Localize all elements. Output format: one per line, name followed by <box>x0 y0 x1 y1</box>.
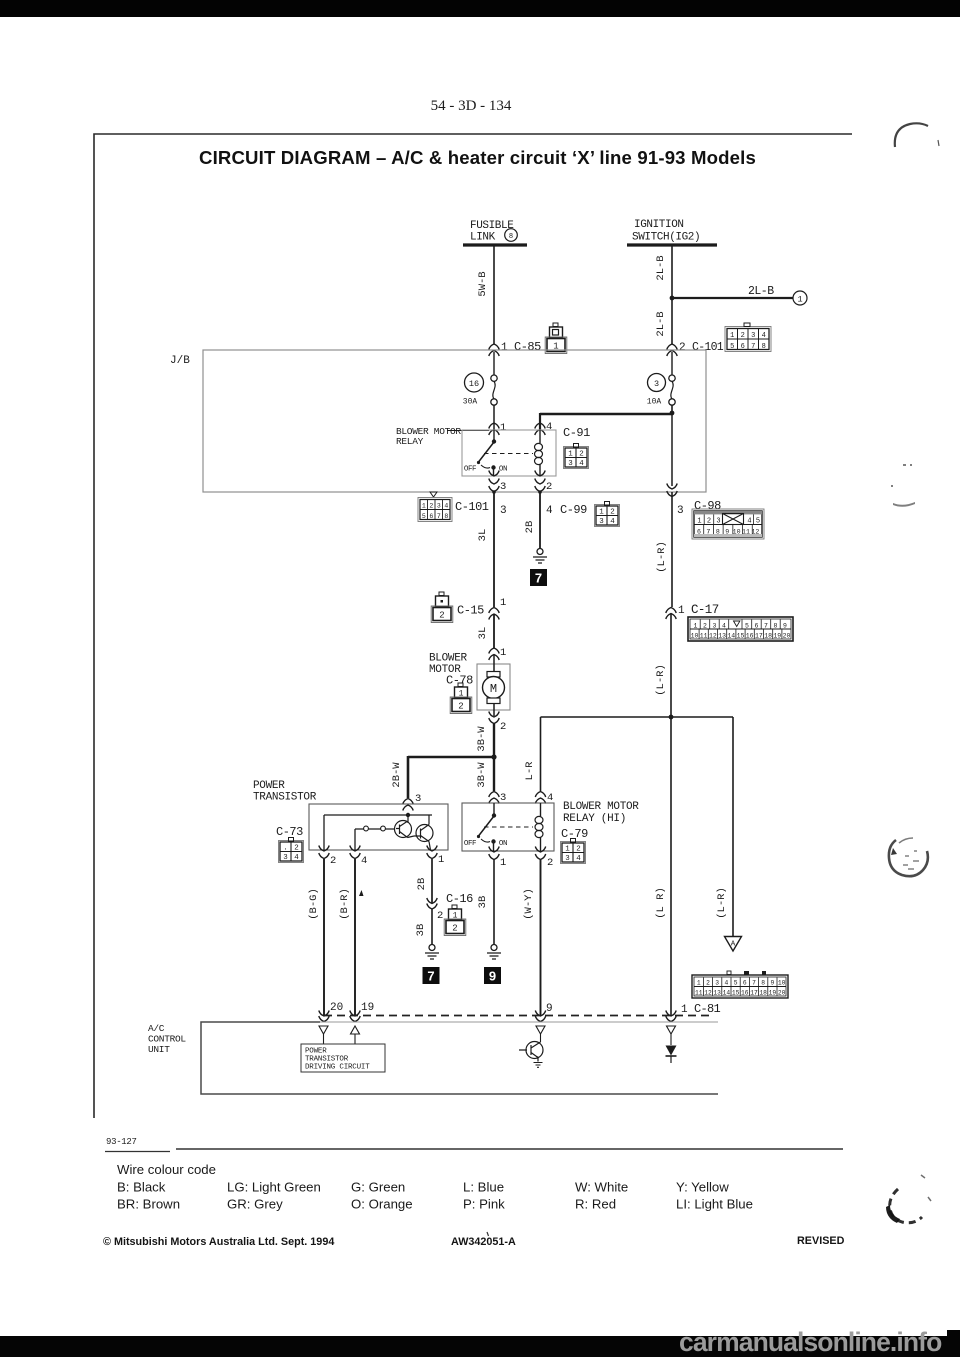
node: junction 2L-B <box>670 296 675 301</box>
svg-text:REVISED: REVISED <box>797 1235 845 1247</box>
scan blob stamp right <box>889 838 928 876</box>
relay HI pin 3 marker <box>489 792 507 805</box>
svg-text:12: 12 <box>751 529 759 536</box>
fuse 3 (10A) <box>647 352 675 407</box>
svg-text:19: 19 <box>769 990 777 997</box>
svg-text:11: 11 <box>695 990 703 997</box>
svg-text:8: 8 <box>716 529 720 536</box>
svg-text:1: 1 <box>568 451 573 459</box>
svg-text:IGNITION: IGNITION <box>634 219 684 231</box>
A/C control unit harness dashed line <box>324 1015 714 1017</box>
ground reference 9 (black tag) <box>484 967 501 984</box>
svg-text:2B: 2B <box>416 878 428 891</box>
svg-text:1: 1 <box>500 647 506 659</box>
svg-text:7: 7 <box>706 529 710 536</box>
svg-text:A: A <box>731 941 736 949</box>
relay HI pin 4 marker <box>535 792 553 805</box>
svg-text:(L R): (L R) <box>655 887 667 919</box>
ground (power transistor) <box>425 945 439 960</box>
power transistor internals <box>324 813 432 850</box>
svg-text:10: 10 <box>733 529 741 536</box>
wire (B-R) pin4 to A/C pin 19 <box>339 859 364 1016</box>
svg-text:2: 2 <box>576 846 581 854</box>
svg-text:3: 3 <box>713 622 717 629</box>
svg-text:9: 9 <box>725 529 729 536</box>
wire 3L label + pin number below C-101 <box>477 492 507 607</box>
page link circle 1 <box>793 291 807 305</box>
svg-text:B: Black: B: Black <box>117 1180 166 1195</box>
ignition switch terminal <box>627 219 717 245</box>
scan smudge dots mid right <box>891 464 915 507</box>
off-page connector triangle A <box>725 937 742 952</box>
svg-text:carmanualsonline.info: carmanualsonline.info <box>679 1327 942 1357</box>
svg-text:AW342051-A: AW342051-A <box>451 1236 516 1248</box>
svg-text:6: 6 <box>429 513 433 520</box>
connector C-17 icon (20 way) <box>688 617 793 641</box>
wire 2B to C-99 / ground <box>524 492 587 548</box>
transistor Q2 <box>408 815 434 850</box>
svg-text:2: 2 <box>458 702 463 712</box>
svg-text:2: 2 <box>546 481 552 493</box>
fuse 16 (30A) <box>463 352 497 407</box>
svg-text:A/C: A/C <box>148 1023 165 1034</box>
connector C-15 marker <box>457 597 506 620</box>
node: L-R junction <box>669 715 674 720</box>
diode D1 inside A/C unit <box>666 1046 677 1064</box>
svg-text:5: 5 <box>745 622 749 629</box>
svg-text:2L-B: 2L-B <box>655 311 667 336</box>
svg-text:3L: 3L <box>477 529 489 542</box>
svg-text:19: 19 <box>773 633 781 640</box>
relay HI label <box>563 801 639 825</box>
relay HI pin 1 marker <box>489 847 507 870</box>
svg-text:18: 18 <box>759 990 767 997</box>
svg-text:7: 7 <box>437 513 441 520</box>
node: junction at fuse 3 output <box>670 411 675 416</box>
C-81 entry marker <box>666 1002 721 1022</box>
svg-text:16: 16 <box>469 379 479 389</box>
svg-text:2: 2 <box>547 857 553 869</box>
connector C-81 icon (20 way) <box>692 971 788 998</box>
fusible link terminal <box>463 220 527 245</box>
svg-text:3L: 3L <box>477 627 489 640</box>
relay HI pin 2 marker <box>535 847 553 870</box>
svg-text:RELAY: RELAY <box>396 436 424 447</box>
svg-text:2: 2 <box>707 518 711 526</box>
svg-text:7: 7 <box>751 343 755 351</box>
svg-text:2: 2 <box>579 451 584 459</box>
svg-text:8: 8 <box>762 343 766 351</box>
svg-text:6: 6 <box>755 622 759 629</box>
svg-text:1: 1 <box>500 597 506 609</box>
svg-text:2: 2 <box>706 980 710 987</box>
svg-text:J/B: J/B <box>170 355 190 367</box>
svg-text:C-81: C-81 <box>694 1002 721 1016</box>
relay HI switch <box>464 803 533 851</box>
svg-text:6: 6 <box>697 529 701 536</box>
svg-text:54 - 3D - 134: 54 - 3D - 134 <box>431 98 512 114</box>
svg-text:15: 15 <box>732 990 740 997</box>
svg-text:4: 4 <box>361 855 367 867</box>
svg-text:8: 8 <box>509 233 513 241</box>
A/C control unit pin 19 entry <box>350 1002 374 1022</box>
svg-text:OFF: OFF <box>464 466 476 474</box>
connector C-16 marker <box>427 892 473 922</box>
relay pin 2 exit marker <box>535 471 553 494</box>
svg-text:4: 4 <box>444 503 448 510</box>
svg-text:C-15: C-15 <box>457 604 484 618</box>
wire 3B C-16 to ground <box>415 909 432 944</box>
power transistor driving circuit block <box>301 1044 385 1072</box>
svg-text:1: 1 <box>459 690 464 699</box>
svg-text:LINK: LINK <box>470 232 496 244</box>
svg-text:4: 4 <box>762 332 766 340</box>
connector C-78 icon <box>450 683 472 714</box>
svg-text:3: 3 <box>599 518 604 526</box>
svg-text:3B-W: 3B-W <box>476 726 488 752</box>
footer rule <box>105 1149 843 1152</box>
svg-text:Y: Yellow: Y: Yellow <box>676 1180 729 1195</box>
svg-text:5W-B: 5W-B <box>477 271 489 296</box>
svg-text:.: . <box>283 845 288 853</box>
svg-text:C-99: C-99 <box>560 503 587 517</box>
svg-text:3: 3 <box>415 793 421 805</box>
svg-text:1: 1 <box>678 605 685 617</box>
wire 2B pin1 to C-16 <box>416 859 432 903</box>
svg-text:2: 2 <box>437 910 443 922</box>
svg-text:9: 9 <box>771 980 775 987</box>
svg-text:4: 4 <box>610 518 615 526</box>
scan smudge arc top-right <box>895 123 928 147</box>
svg-text:3B: 3B <box>477 896 489 909</box>
connector C-17 marker <box>666 603 719 619</box>
blower motor relay pin 4 marker <box>535 421 553 435</box>
ground reference 7 (black tag) <box>530 569 547 586</box>
svg-text:(L-R): (L-R) <box>716 887 728 919</box>
blower motor exit pin 2 <box>489 712 507 734</box>
A/C control unit pin 20 entry <box>319 1002 343 1022</box>
wire 3B-W motor to junction <box>476 724 494 758</box>
svg-text:2: 2 <box>500 721 506 733</box>
svg-text:6: 6 <box>743 980 747 987</box>
svg-text:G: Green: G: Green <box>351 1180 405 1195</box>
wire (L-R) from C-98 to C-17 <box>656 492 684 607</box>
svg-text:2L-B: 2L-B <box>748 285 774 298</box>
svg-text:3B: 3B <box>415 924 427 937</box>
svg-text:(L-R): (L-R) <box>656 541 668 573</box>
svg-text:LG: Light Green: LG: Light Green <box>227 1180 321 1195</box>
svg-text:1: 1 <box>681 1004 688 1016</box>
svg-text:1: 1 <box>453 912 458 921</box>
A/C control unit box <box>201 1022 718 1094</box>
svg-text:C-101: C-101 <box>692 341 724 354</box>
wire L-R junction horizontal <box>541 716 734 718</box>
svg-text:2: 2 <box>610 509 615 517</box>
svg-text:3: 3 <box>500 481 506 493</box>
svg-text:14: 14 <box>723 990 731 997</box>
svg-text:4: 4 <box>722 622 726 629</box>
relay C-91 coil <box>535 430 543 476</box>
svg-text:TRANSISTOR: TRANSISTOR <box>253 792 317 804</box>
blower motor relay (HI) box <box>462 803 554 851</box>
svg-text:18: 18 <box>764 633 772 640</box>
svg-text:W: White: W: White <box>575 1180 628 1195</box>
transistor inside A/C unit <box>519 1042 543 1062</box>
svg-text:8: 8 <box>444 513 448 520</box>
svg-text:2B-W: 2B-W <box>391 762 403 788</box>
svg-text:1: 1 <box>501 342 508 354</box>
svg-text:1: 1 <box>422 503 426 510</box>
svg-text:4: 4 <box>725 980 729 987</box>
svg-text:3: 3 <box>500 792 506 804</box>
svg-text:3: 3 <box>500 505 507 517</box>
connector C-73 icon <box>279 838 304 863</box>
svg-text:3: 3 <box>751 332 755 340</box>
wire L-R to relay HI pin 4 <box>524 717 541 791</box>
relay C-91 switch <box>464 430 533 476</box>
connector C-85 crossing into J/B, pin 1 <box>489 340 541 356</box>
svg-text:© Mitsubishi Motors Australia: © Mitsubishi Motors Australia Ltd. Sept.… <box>103 1236 334 1248</box>
connector C-85 icon <box>545 323 567 354</box>
connector C-101 icon (lower) <box>418 492 452 522</box>
svg-text:3B-W: 3B-W <box>476 762 488 788</box>
wire (L-R) C-17 to junction <box>655 614 671 717</box>
svg-text:3: 3 <box>715 980 719 987</box>
svg-text:4: 4 <box>294 854 299 862</box>
svg-text:2: 2 <box>679 342 686 354</box>
svg-text:9: 9 <box>546 1003 553 1015</box>
svg-text:POWER: POWER <box>305 1048 327 1056</box>
blower motor <box>429 653 510 717</box>
svg-text:3: 3 <box>283 854 288 862</box>
svg-text:2: 2 <box>294 845 299 853</box>
svg-text:ON: ON <box>499 840 507 848</box>
power transistor box <box>309 804 448 850</box>
svg-text:9: 9 <box>783 622 787 629</box>
connector C-101 icon (8 way) <box>725 323 771 352</box>
svg-text:1: 1 <box>500 422 506 434</box>
svg-text:9: 9 <box>489 969 496 984</box>
svg-text:12: 12 <box>709 633 717 640</box>
svg-text:1: 1 <box>599 509 604 517</box>
diagram outer border (top + left edges) <box>94 134 852 1118</box>
svg-text:BR: Brown: BR: Brown <box>117 1197 180 1212</box>
svg-text:LI: Light Blue: LI: Light Blue <box>676 1197 753 1212</box>
power transistor label <box>253 780 317 804</box>
svg-text:OFF: OFF <box>464 840 476 848</box>
blower motor relay pin 1 marker <box>489 422 507 435</box>
svg-text:C-73: C-73 <box>276 825 303 839</box>
svg-text:L: Blue: L: Blue <box>463 1180 504 1195</box>
ground (relay HI) <box>487 945 501 960</box>
svg-text:14: 14 <box>727 633 735 640</box>
svg-text:1: 1 <box>500 857 506 869</box>
connector C-98 icon (12 way) <box>692 509 764 539</box>
svg-text:C-16: C-16 <box>446 892 473 906</box>
wire fuse3 down to junction <box>671 405 673 413</box>
small ground inside A/C unit <box>534 1063 543 1068</box>
svg-text:(L-R): (L-R) <box>655 664 667 696</box>
svg-text:3: 3 <box>654 379 659 389</box>
svg-text:1: 1 <box>697 518 701 526</box>
svg-text:2: 2 <box>429 503 433 510</box>
thick wire 2B-W branch to power transistor <box>391 756 494 798</box>
svg-text:10A: 10A <box>647 398 662 407</box>
svg-text:3: 3 <box>716 518 720 526</box>
svg-text:3: 3 <box>565 855 570 863</box>
svg-text:16: 16 <box>741 990 749 997</box>
svg-text:C-17: C-17 <box>691 603 719 617</box>
svg-text:5: 5 <box>734 980 738 987</box>
wire (W-Y) relay HI pin2 to A/C pin 9 <box>523 859 541 1016</box>
node: pin3 at J/B bottom <box>492 490 496 494</box>
svg-text:10: 10 <box>691 633 699 640</box>
A/C control unit pin 9 entry <box>535 1003 552 1022</box>
wire 3L to blower motor <box>477 614 494 648</box>
wire 5W-B from fusible link to J/B <box>477 246 494 344</box>
svg-text:20: 20 <box>330 1002 343 1014</box>
svg-text:TRANSISTOR: TRANSISTOR <box>305 1056 349 1064</box>
svg-text:4: 4 <box>546 421 552 433</box>
svg-text:7: 7 <box>535 571 542 586</box>
svg-text:UNIT: UNIT <box>148 1044 170 1055</box>
svg-text:12: 12 <box>704 990 712 997</box>
svg-text:2: 2 <box>439 611 444 621</box>
svg-text:4: 4 <box>547 792 553 804</box>
svg-text:2: 2 <box>703 622 707 629</box>
node: pin2 at J/B bottom <box>538 490 542 494</box>
svg-text:13: 13 <box>718 633 726 640</box>
top scanner black bar <box>0 0 960 17</box>
svg-text:1: 1 <box>697 980 701 987</box>
svg-text:P: Pink: P: Pink <box>463 1197 505 1212</box>
svg-text:7: 7 <box>427 969 434 984</box>
svg-text:BLOWER: BLOWER <box>429 653 468 665</box>
svg-text:2B: 2B <box>524 521 536 534</box>
svg-text:11: 11 <box>700 633 708 640</box>
connector C-79 icon <box>561 839 586 864</box>
wire (L-R) to off-page triangle A <box>716 717 733 936</box>
svg-text:5: 5 <box>422 513 426 520</box>
svg-text:DRIVING CIRCUIT: DRIVING CIRCUIT <box>305 1064 370 1072</box>
svg-text:8: 8 <box>774 622 778 629</box>
svg-text:4: 4 <box>579 460 584 468</box>
svg-text:10: 10 <box>778 980 786 987</box>
svg-text:7: 7 <box>764 622 768 629</box>
svg-text:CONTROL: CONTROL <box>148 1034 186 1045</box>
J/B junction block box <box>170 350 706 492</box>
wire (B-G) pin2 to A/C pin 20 <box>308 859 324 1016</box>
ground after C-99 <box>533 549 547 564</box>
relay C-91 box <box>462 430 556 476</box>
svg-text:93-127: 93-127 <box>106 1137 137 1147</box>
wire (L R) junction to A/C control unit <box>655 717 671 1016</box>
wire 2L-B branch to page link 1 <box>672 285 793 298</box>
svg-text:30A: 30A <box>463 398 478 407</box>
relay HI coil <box>535 803 543 851</box>
svg-text:POWER: POWER <box>253 780 285 792</box>
svg-text:2L-B: 2L-B <box>655 255 667 280</box>
power transistor pin 2 marker <box>319 846 337 868</box>
svg-text:SWITCH(IG2): SWITCH(IG2) <box>632 232 700 244</box>
svg-text:15: 15 <box>737 633 745 640</box>
wire 3B-W junction to relay HI pin 3 <box>476 757 494 791</box>
blower motor relay label <box>396 426 489 447</box>
svg-text:6: 6 <box>741 343 745 351</box>
svg-text:2: 2 <box>741 332 745 340</box>
connector C-16 icon <box>444 905 466 936</box>
svg-text:5: 5 <box>756 518 760 526</box>
svg-text:RELAY (HI): RELAY (HI) <box>563 813 626 825</box>
power transistor pin 4 marker <box>350 846 368 868</box>
svg-text:2: 2 <box>330 855 336 867</box>
svg-text:3: 3 <box>437 503 441 510</box>
svg-text:L-R: L-R <box>524 761 536 781</box>
svg-text:C-101: C-101 <box>455 500 489 514</box>
svg-text:Wire colour code: Wire colour code <box>117 1162 216 1177</box>
C-98 exit marker at J/B edge <box>667 484 677 497</box>
svg-text:20: 20 <box>778 990 786 997</box>
svg-text:GR: Grey: GR: Grey <box>227 1197 283 1212</box>
svg-text:C-85: C-85 <box>514 340 541 354</box>
bottom scanner black bar <box>0 1330 960 1357</box>
power transistor pin 3 marker <box>403 793 422 811</box>
svg-text:CIRCUIT DIAGRAM – A/C & heater: CIRCUIT DIAGRAM – A/C & heater circuit ‘… <box>199 147 756 168</box>
A/C C-81 internal triangle <box>667 1026 676 1045</box>
wire 2L-B ignition to junction <box>655 246 672 298</box>
transistor Q1 <box>395 815 412 838</box>
svg-text:C-78: C-78 <box>446 674 473 688</box>
svg-text:2: 2 <box>452 924 457 934</box>
power transistor pin 1 marker <box>427 846 445 867</box>
svg-text:R: Red: R: Red <box>575 1197 616 1212</box>
connector C-101 crossing into J/B, pin 2 <box>667 341 724 356</box>
scan swirl bottom right <box>886 1175 931 1223</box>
svg-text:7: 7 <box>752 980 756 987</box>
svg-text:16: 16 <box>746 633 754 640</box>
svg-text:17: 17 <box>750 990 758 997</box>
svg-text:1: 1 <box>565 846 570 854</box>
svg-text:8: 8 <box>761 980 765 987</box>
svg-text:4: 4 <box>546 505 553 517</box>
connector C-91 icon <box>564 444 589 469</box>
wire 3B relay HI pin1 to ground <box>477 859 494 944</box>
thick wire junction to relay coil pin 4 <box>540 413 672 430</box>
A/C pin 9 internal triangle <box>536 1026 545 1042</box>
svg-text:O: Orange: O: Orange <box>351 1197 413 1212</box>
svg-text:3: 3 <box>677 505 684 517</box>
A/C pin 19 internal triangle <box>351 1026 360 1044</box>
svg-text:ON: ON <box>499 466 507 474</box>
wire fuse16 to relay pin 1 <box>493 405 495 430</box>
svg-text:4: 4 <box>576 855 581 863</box>
svg-text:3: 3 <box>568 460 573 468</box>
svg-text:11: 11 <box>742 529 750 536</box>
svg-text:M: M <box>490 682 497 696</box>
connector C-99 icon <box>595 502 620 527</box>
A/C pin 20 internal triangle <box>319 1026 328 1044</box>
ground reference 7 (black tag) <box>423 967 440 984</box>
A/C control unit label <box>148 1023 186 1055</box>
svg-text:1: 1 <box>694 622 698 629</box>
node: 3B-W junction <box>491 754 496 759</box>
svg-text:(W-Y): (W-Y) <box>523 888 535 920</box>
svg-text:17: 17 <box>755 633 763 640</box>
svg-text:19: 19 <box>361 1002 374 1014</box>
svg-text:1: 1 <box>730 332 734 340</box>
svg-text:(B-G): (B-G) <box>308 888 320 920</box>
svg-text:1: 1 <box>797 295 802 305</box>
